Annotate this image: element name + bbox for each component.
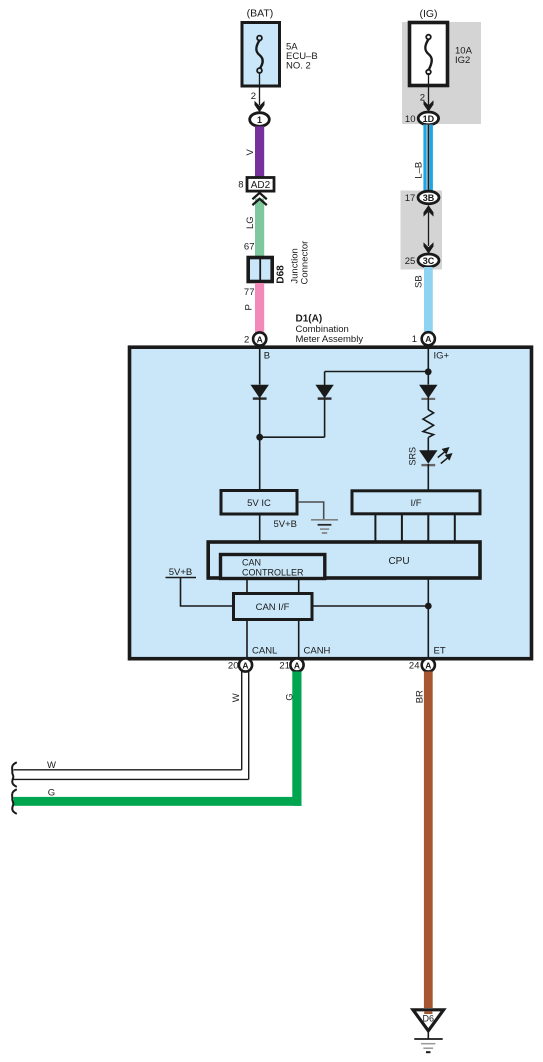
- svg-text:A: A: [242, 660, 248, 670]
- CAN CONTROLLER box: [221, 555, 325, 579]
- wire CANH: [298, 620, 300, 659]
- fuse F1 5A ECU-B NO.2 (BAT): [242, 23, 280, 87]
- svg-text:(BAT): (BAT): [247, 8, 274, 20]
- wire fuse to node 1: [259, 72, 261, 105]
- svg-text:67: 67: [244, 242, 255, 253]
- junction connector D68: [248, 258, 272, 282]
- wire ET vertical: [427, 579, 429, 659]
- svg-text:SRS: SRS: [407, 447, 417, 466]
- pin 21A circle: [290, 658, 303, 671]
- wire LG (light green): [255, 199, 264, 257]
- wire CAN I/F to ET line: [312, 605, 428, 607]
- svg-text:CANH: CANH: [304, 646, 331, 657]
- wire LED to I/F: [427, 464, 429, 490]
- svg-text:G: G: [285, 693, 296, 700]
- node 3B (connector): [418, 191, 439, 204]
- svg-text:G: G: [48, 787, 55, 798]
- I/F box: [352, 491, 480, 514]
- CAN I/F box: [234, 594, 313, 620]
- svg-text:BR: BR: [415, 690, 426, 703]
- wire IG+ vertical: [427, 348, 429, 385]
- svg-text:A: A: [257, 334, 263, 344]
- svg-text:IG2: IG2: [455, 55, 470, 66]
- svg-text:24: 24: [409, 661, 420, 672]
- svg-text:2: 2: [251, 91, 256, 102]
- wire P (pink): [255, 283, 264, 333]
- wires CAN CONTROLLER to CAN I/F: [246, 579, 248, 595]
- svg-text:I/F: I/F: [410, 498, 421, 509]
- pin 1A circle: [422, 332, 435, 345]
- svg-text:P: P: [243, 304, 254, 310]
- arrow into node 1: [255, 101, 265, 113]
- ground D6: [413, 1010, 444, 1052]
- connector AD2: [247, 178, 274, 192]
- internal ground: [311, 520, 338, 533]
- svg-text:W: W: [231, 693, 242, 702]
- svg-text:CAN: CAN: [242, 558, 261, 568]
- wire 5V IC to internal ground: [299, 502, 324, 520]
- chevron pass-through marks: [252, 193, 266, 199]
- node 1 (connector): [250, 113, 270, 127]
- diode D-b branch wires: [324, 397, 326, 437]
- wire below diode D-a: [259, 397, 261, 490]
- I/F to CPU stub wires: [374, 514, 376, 542]
- junction dot on ET line: [425, 603, 432, 610]
- combination meter assembly D1(A) box: [130, 347, 532, 659]
- svg-text:Meter Assembly: Meter Assembly: [296, 334, 364, 345]
- svg-text:AD2: AD2: [251, 180, 271, 191]
- wire 5V IC to CPU: [259, 515, 261, 543]
- svg-text:3C: 3C: [423, 256, 435, 266]
- svg-text:8: 8: [238, 180, 243, 191]
- node 1D (connector): [418, 112, 438, 125]
- svg-text:B: B: [264, 351, 270, 362]
- svg-text:1D: 1D: [423, 114, 435, 124]
- svg-text:NO. 2: NO. 2: [286, 61, 311, 72]
- svg-text:CANL: CANL: [252, 646, 277, 657]
- svg-text:5V IC: 5V IC: [247, 498, 271, 509]
- svg-text:A: A: [425, 660, 431, 670]
- svg-text:SB: SB: [414, 275, 425, 288]
- wire L-B (blue with black stripe): [423, 125, 433, 192]
- svg-text:D6: D6: [423, 1014, 435, 1024]
- svg-text:A: A: [425, 334, 431, 344]
- break mark on wire W: [12, 762, 17, 787]
- pin 20A circle: [239, 658, 252, 671]
- arrow into node 1D: [424, 100, 434, 112]
- diode D-c: [419, 385, 437, 399]
- svg-text:3B: 3B: [423, 193, 435, 203]
- arrow up into 3B: [424, 205, 434, 217]
- wire B vertical: [259, 348, 261, 385]
- 5V IC box: [221, 491, 297, 515]
- svg-text:25: 25: [405, 256, 416, 267]
- svg-text:L–B: L–B: [413, 162, 424, 179]
- wire CANL: [246, 620, 248, 659]
- wire fuse to node 1D: [428, 73, 430, 105]
- svg-text:Connector: Connector: [300, 241, 311, 285]
- svg-text:5V+B: 5V+B: [274, 519, 298, 530]
- wire W (white, outlined) vertical+horizontal: [14, 672, 249, 780]
- resistor R: [423, 410, 434, 438]
- wire SB (sky blue): [424, 267, 433, 333]
- svg-text:1: 1: [257, 115, 262, 125]
- pin 24A circle: [422, 658, 435, 671]
- diode D-b: [315, 385, 333, 399]
- svg-text:20: 20: [228, 661, 239, 672]
- wire diode to resistor: [427, 397, 429, 410]
- svg-text:CPU: CPU: [388, 556, 409, 567]
- wire resistor to LED: [427, 437, 429, 451]
- svg-text:(IG): (IG): [419, 8, 437, 20]
- svg-text:CAN I/F: CAN I/F: [256, 602, 290, 613]
- wire between 3B and 3C: [428, 212, 430, 246]
- junction dot on B line: [256, 434, 263, 441]
- svg-text:D68: D68: [276, 265, 287, 284]
- svg-text:5V+B: 5V+B: [169, 567, 193, 578]
- diode D-a: [251, 385, 269, 399]
- fuse F2 10A IG2 (IG): [410, 23, 448, 86]
- pin 2A circle: [253, 332, 266, 345]
- junction dot on IG+ line: [425, 368, 432, 375]
- svg-text:W: W: [47, 760, 56, 771]
- svg-text:2: 2: [244, 335, 249, 346]
- wire junction to diode D-b: [260, 436, 325, 438]
- node 3C (connector): [418, 254, 439, 267]
- svg-text:IG+: IG+: [434, 351, 450, 362]
- gray panel between 3B and 3C: [401, 191, 443, 270]
- wire V (violet): [255, 126, 264, 181]
- svg-text:V: V: [245, 149, 256, 156]
- svg-text:10: 10: [405, 114, 416, 125]
- wire BR (brown): [424, 672, 433, 1009]
- svg-text:A: A: [294, 660, 300, 670]
- svg-text:CONTROLLER: CONTROLLER: [242, 568, 304, 578]
- svg-text:1: 1: [412, 334, 417, 345]
- LED SRS: [419, 448, 451, 465]
- wire G (green): [14, 672, 302, 806]
- svg-text:ET: ET: [434, 646, 446, 657]
- break mark on wire G: [12, 789, 17, 814]
- net flag 5V+B: [166, 567, 234, 606]
- CPU box: [208, 542, 480, 578]
- gray panel around IG fuse: [402, 22, 481, 124]
- svg-text:77: 77: [244, 287, 255, 298]
- svg-text:21: 21: [279, 661, 290, 672]
- arrow down into 3C: [424, 242, 434, 254]
- svg-text:LG: LG: [245, 216, 256, 229]
- svg-text:17: 17: [405, 193, 416, 204]
